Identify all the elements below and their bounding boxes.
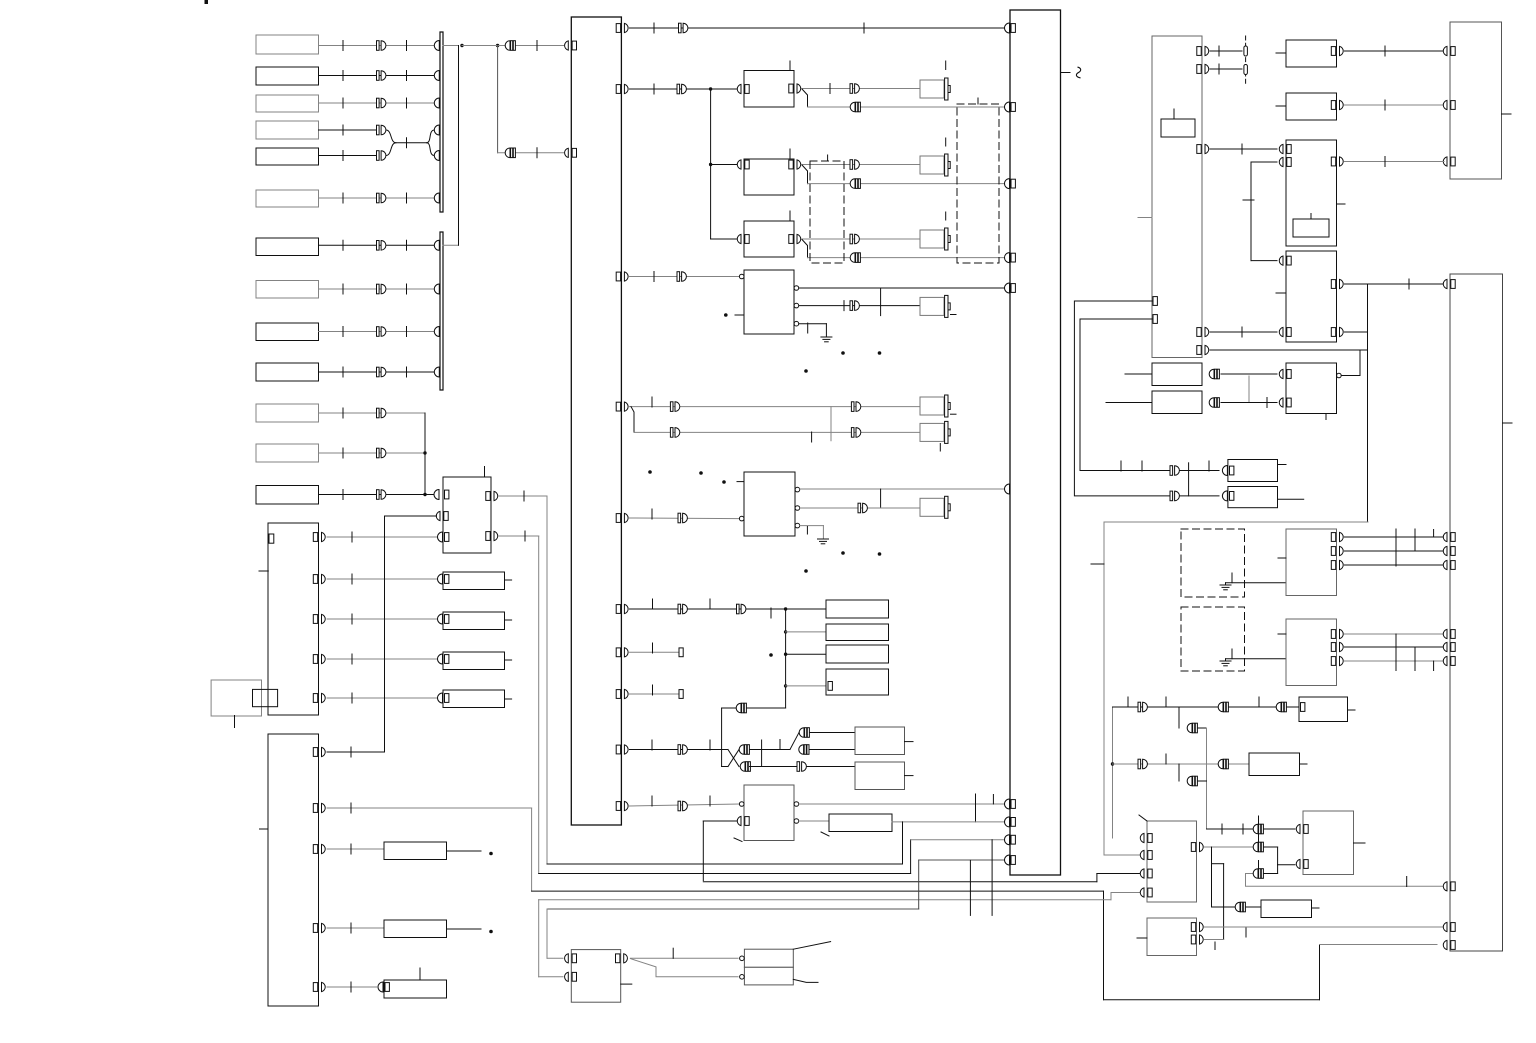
flag tick [1258,834,1260,842]
wire [1395,529,1397,566]
connector CN-R1 [1450,22,1502,179]
bus entry [1005,799,1016,809]
register box ST2 [826,624,889,641]
pin U-R1.4 [1197,327,1209,336]
tick [1408,279,1410,289]
tick [1165,697,1167,707]
ellipsis dot [878,552,882,556]
entry [1222,491,1227,501]
pin C2 in [737,160,749,169]
wire [1345,50,1445,52]
ground GND2 [818,539,829,544]
wire [443,244,459,246]
IC C6 [744,785,794,841]
wire [786,653,826,655]
wire [630,693,680,695]
tick [945,138,947,146]
pin BL in1 [565,954,577,963]
pin CN-R2 row 927 [1443,922,1455,931]
net L4 bottom [1104,999,1320,1001]
buffer pair flagged [1253,824,1263,834]
stub [1278,557,1286,559]
wire [1251,161,1277,163]
wire [786,685,828,687]
buffer [377,193,386,203]
wire [880,288,882,316]
sub block U2 [1293,219,1329,237]
terminator [679,690,683,699]
buffer [377,284,386,294]
wire [327,618,437,620]
buffer pair [740,762,750,772]
wire split [427,130,435,156]
tick [709,740,711,750]
stub [1348,709,1356,711]
net L5 drop [538,900,540,977]
stub [1278,464,1287,466]
bus entry [434,41,439,51]
tick [977,98,979,104]
wire [711,238,737,240]
tick [342,240,344,250]
ellipsis dot [489,930,493,934]
wire [1248,376,1250,403]
tick [406,240,408,250]
tick [406,284,408,294]
buffer [1138,759,1147,769]
tick [1221,824,1223,834]
flag tick [1258,816,1260,824]
ground stem [1225,583,1227,585]
wire [327,927,384,929]
pin CN-R1.1 [1443,46,1455,55]
IC U3 [1286,251,1337,342]
wire cross [728,750,739,767]
tick [709,796,711,806]
bus BUS2 [440,232,443,390]
wire [498,152,564,154]
wire [319,331,440,333]
pin U3 in1 [1279,256,1291,265]
net L3 riser [1096,874,1098,882]
stub [1278,633,1286,635]
ellipsis dot [841,551,845,555]
tick [1165,754,1167,764]
bus entry [1005,484,1010,494]
tick [807,323,809,333]
pin C1 out [789,84,801,93]
option region DX2 [957,104,999,263]
IC P1 [1152,363,1202,386]
pin U3 out2 [1331,327,1343,336]
wire [1212,906,1236,908]
tick [342,448,344,458]
wire [1320,944,1438,946]
driver box BR1 [744,949,793,967]
wire [800,525,823,527]
register box ST3 [826,645,889,663]
junction [784,653,787,656]
tick long [1414,647,1416,671]
tick [1127,697,1129,707]
wire [319,75,440,77]
tick [342,284,344,294]
wire [799,323,826,325]
input box IN13 [256,486,319,505]
wire fork [790,733,799,750]
latch box T3 [1261,900,1312,918]
tick [1120,461,1122,471]
buffer [678,801,687,811]
wire riser [1112,707,1114,838]
input box IN6 [256,190,319,207]
pin U6.3 [1331,656,1343,665]
buffer pair [799,745,809,755]
wire [462,45,564,47]
pin U9 out1 [1191,922,1203,931]
pin U7 out [1191,842,1203,851]
pin square U-W.1 [445,490,449,499]
option region DX4 [1181,607,1245,671]
pin U5.2 [1331,546,1343,555]
stub [737,481,744,483]
tick [1241,144,1243,154]
pin J-B.3 [313,844,325,853]
wire [499,495,547,497]
tick [342,125,344,135]
wire [799,287,1004,289]
ellipsis dot [878,351,882,355]
buffer pair [505,148,515,158]
wire [319,494,434,496]
tick [945,212,947,220]
wire [1226,658,1287,660]
tick [351,693,353,703]
entry [378,982,383,992]
pin J-A.4 [313,654,325,663]
bus entry [434,327,439,337]
buffer [377,41,386,51]
net L4 drop [531,808,533,891]
wire [799,803,1004,805]
stub [1502,113,1512,115]
buffer pair [736,703,746,713]
buffer box V3 [443,652,505,670]
xtal component Y4 [920,295,950,317]
net L4 riser [1319,945,1321,1000]
pin U-MAIN out8 [616,689,628,698]
junction [1111,762,1114,765]
input box IN5 [256,148,319,165]
wire fork [630,959,738,977]
net L6 drop [546,909,548,958]
buffer [797,762,806,772]
pin U-W out2 [486,531,498,540]
wire [822,526,824,539]
xtal component Y1 [920,78,950,100]
wire [800,488,1004,490]
pin CN-R1.3 [1443,157,1455,166]
tick [1231,649,1233,659]
wire [327,751,385,753]
wire [1277,865,1279,874]
net L4 riser [1103,891,1105,1000]
tick [406,71,408,81]
pin C4 in (inverted) [739,274,744,279]
stub [1354,842,1366,844]
tick [1208,461,1210,471]
pin square V3 [445,655,449,664]
wire [327,807,532,809]
wire [892,821,1004,823]
pin C3 in [737,234,749,243]
delay box DL1 [829,814,892,832]
wire [825,324,827,337]
wire [880,489,882,507]
pin C5 out3 [795,523,800,528]
wire [703,820,736,822]
entry [438,614,443,624]
tick [1214,942,1216,950]
pin square R1 [1230,466,1234,475]
wire [807,766,856,768]
wire [1345,564,1445,566]
tick [652,599,654,609]
xtal component Y5 [920,395,950,417]
register box ST4 [826,669,889,695]
tick [652,643,654,653]
stub [505,698,512,700]
stub [1503,422,1513,424]
wire [327,697,437,699]
tick long [1188,463,1190,496]
IC U2 [1286,140,1337,246]
wire [1345,646,1445,648]
bus entry [1005,253,1016,263]
wire [1345,283,1445,285]
wire cross [728,750,739,767]
ellipsis dot [804,569,808,573]
tick [789,61,791,71]
IC C3 [744,221,794,257]
wire [1345,550,1445,552]
wire fork [631,407,634,433]
pin C6 out1 [794,802,799,807]
pin CN-R2 row 886 [1443,882,1455,891]
IC R2 [1228,487,1278,508]
pin U-MAIN out2 [616,84,628,93]
tick [779,740,781,750]
bus entry [1005,102,1016,112]
buffer pair [1187,776,1197,786]
hanging wire [991,840,993,916]
tick [342,98,344,108]
tick [350,844,352,854]
pin C1 in [737,84,749,93]
input box IN3 [256,95,319,112]
tick [789,211,791,221]
IC K1 [1286,40,1337,67]
net L5b [1111,892,1140,894]
buffer pair [1235,902,1245,912]
wire [1210,331,1277,333]
buffer [678,513,687,523]
stub [1300,763,1308,765]
tick [653,23,655,33]
tick [350,747,352,757]
wire [319,452,426,454]
buffer pair flagged [1253,842,1263,852]
wire [319,412,426,414]
buffer [377,71,386,81]
tick [651,796,653,806]
pin U-W.2 [436,511,448,520]
pin U6.1 [1331,629,1343,638]
wire [327,986,377,988]
tick [709,599,711,609]
pin U2 in1 [1279,144,1291,153]
latch box T1 [1299,697,1348,722]
IC U4 [1286,363,1337,414]
tick [651,740,653,750]
wire [721,708,723,767]
wire jog [1212,863,1224,865]
wire [799,820,829,822]
pin CN-R2 row 634 [1443,629,1455,638]
wire [319,129,377,131]
pin U5.3 [1331,560,1343,569]
input box IN9 [256,323,319,341]
bus entry [1005,855,1016,865]
pin U-R1.2 [1197,64,1209,73]
wire [1113,706,1300,708]
connector J-B (tall) [268,734,319,1006]
wire [802,88,920,90]
pin J-B.2 [313,803,325,812]
pin square U-R1 left b [1153,315,1157,324]
tick [863,23,865,33]
wire [1221,373,1277,375]
pin U7 in3 [1140,869,1152,878]
stub [1276,292,1286,294]
wire [499,535,539,537]
wire [802,238,920,240]
tick [806,527,808,535]
input box IN11 [256,404,319,422]
jumper JP1 [1244,46,1248,56]
pin square V4 [445,694,449,703]
junction [784,607,787,610]
wire [443,45,459,47]
wire [786,631,826,633]
wire [1210,50,1242,52]
stub [1243,199,1254,201]
pin C5 out2 [795,506,800,511]
tick [1325,414,1327,420]
wire branch [1178,764,1180,781]
pin U4 in2 [1279,398,1291,407]
tick [1218,64,1220,74]
stub [951,413,957,415]
register box ST1 [826,600,889,618]
stub [905,775,914,777]
wire [1226,582,1287,584]
pin CN-R2 row 945 [1443,940,1455,949]
sub block [1161,119,1195,137]
IC P2 [1152,391,1202,414]
tick [419,968,421,980]
wire branch [785,609,787,708]
tick [406,367,408,377]
wire [319,288,440,290]
tick [1141,461,1143,471]
wire [1210,349,1368,351]
input box IN12 [256,444,319,462]
pin U8 in1 [1296,824,1308,833]
buffer [850,160,859,170]
tick [1384,100,1386,110]
latch box TA [855,727,905,755]
junction [423,451,426,454]
junction [784,630,787,633]
tick [1218,46,1220,56]
pin J-A.5 [313,693,325,702]
wire [750,749,791,751]
pin U4 out (inverted) [1337,373,1342,378]
entry [438,693,443,703]
tick long [1414,529,1416,551]
net L3b [1097,873,1140,875]
tick [536,148,538,158]
stub [259,570,268,572]
diagonal [793,979,818,982]
slash [1139,815,1147,821]
entry [438,532,443,542]
junction [709,87,712,90]
buffer [1170,491,1179,501]
stub [1276,105,1286,107]
tick [484,467,486,478]
tick [1384,46,1386,56]
pin square T1 [1301,703,1305,712]
stub [1091,563,1104,565]
wire [1198,780,1207,782]
tick [653,272,655,282]
IC C4 [744,270,794,334]
buffer [1170,466,1179,476]
pin U2 out [1331,157,1343,166]
entry [438,574,443,584]
pin U6.2 [1331,642,1343,651]
net L3 [703,881,1097,883]
pin U-MAIN out4 [616,402,628,411]
wire riser [1206,728,1208,829]
pin C6 out2 [794,819,799,824]
wire [447,928,482,930]
tick [406,193,408,203]
tick [342,41,344,51]
wire fork [802,89,808,107]
wire [1250,162,1252,261]
page mark [205,0,209,4]
tick [524,531,526,541]
pin BL in2 [565,972,577,981]
stub [905,741,914,743]
buffer [1138,702,1147,712]
IC U-W [443,477,491,553]
wire riser [384,516,386,752]
wire [808,257,1005,259]
